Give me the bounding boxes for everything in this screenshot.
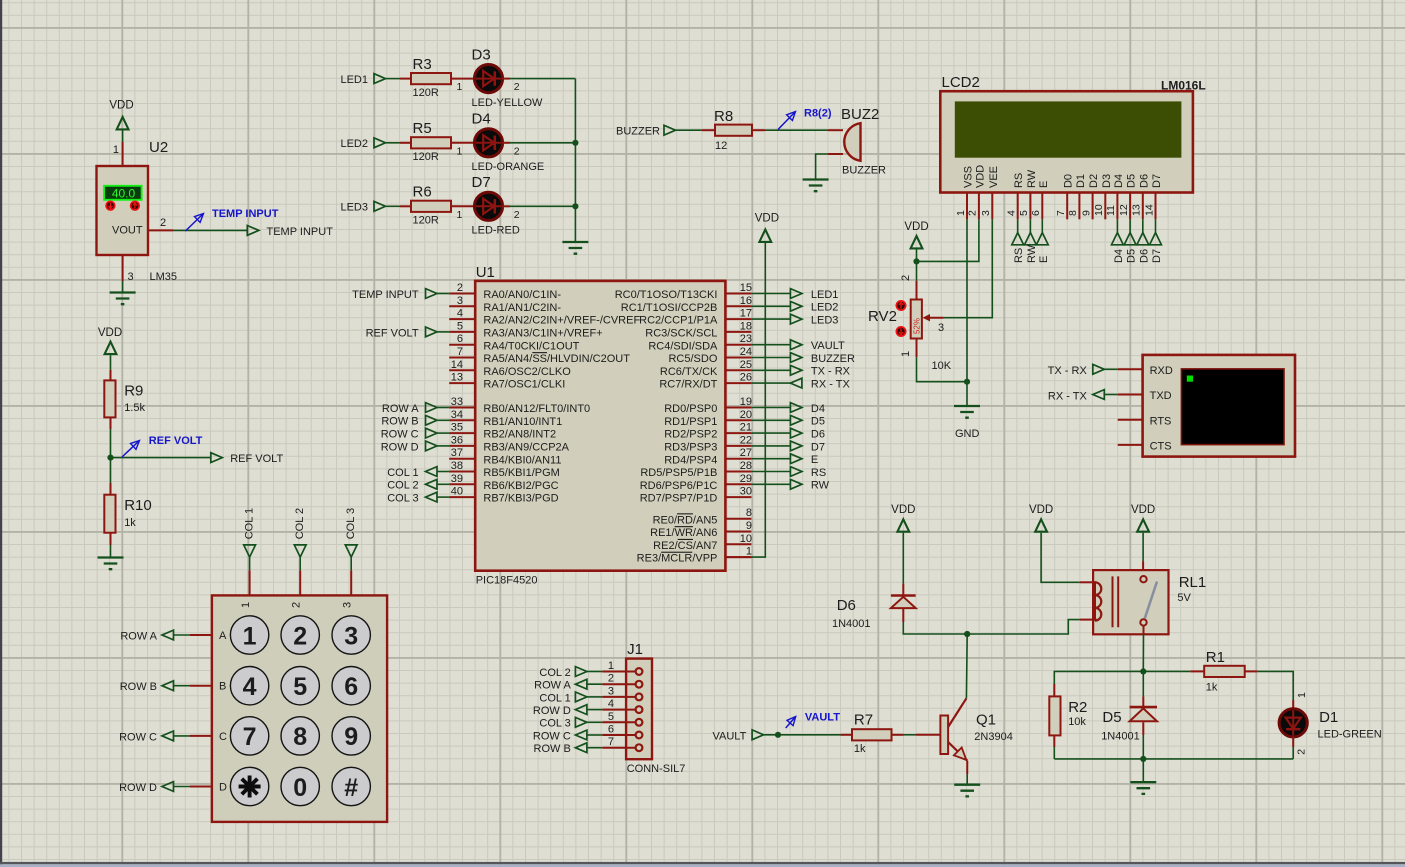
svg-text:CTS: CTS: [1150, 441, 1172, 453]
svg-text:RC2/CCP1/P1A: RC2/CCP1/P1A: [639, 315, 718, 327]
svg-text:13: 13: [451, 372, 463, 384]
svg-text:35: 35: [451, 422, 463, 434]
svg-text:4: 4: [243, 673, 257, 701]
svg-text:TEMP INPUT: TEMP INPUT: [267, 226, 334, 238]
svg-text:RA6/OSC2/CLKO: RA6/OSC2/CLKO: [483, 366, 571, 378]
svg-text:D7: D7: [811, 441, 825, 453]
svg-text:J1: J1: [627, 641, 643, 658]
svg-text:RW: RW: [1026, 244, 1038, 263]
svg-text:REF VOLT: REF VOLT: [366, 327, 419, 339]
svg-text:39: 39: [451, 473, 463, 485]
svg-text:1.5k: 1.5k: [124, 402, 145, 414]
svg-text:2: 2: [293, 622, 307, 650]
svg-text:COL 3: COL 3: [387, 493, 418, 505]
svg-text:RE1/WR/AN6: RE1/WR/AN6: [650, 527, 717, 539]
svg-text:0: 0: [293, 774, 307, 802]
svg-text:BUZ2: BUZ2: [841, 106, 879, 123]
svg-text:LM35: LM35: [150, 271, 178, 283]
svg-text:VAULT: VAULT: [811, 340, 845, 352]
svg-text:R9: R9: [124, 383, 143, 400]
svg-text:2: 2: [1296, 749, 1308, 755]
svg-text:VEE: VEE: [988, 166, 1000, 188]
svg-text:RD7/PSP7/P1D: RD7/PSP7/P1D: [640, 493, 718, 505]
svg-text:40: 40: [451, 486, 463, 498]
svg-text:VDD: VDD: [1029, 504, 1053, 516]
svg-text:E: E: [1038, 181, 1050, 188]
svg-text:D1: D1: [1319, 709, 1338, 726]
svg-text:R7: R7: [854, 712, 873, 729]
svg-text:D5: D5: [811, 416, 825, 428]
svg-text:RX - TX: RX - TX: [811, 379, 851, 391]
svg-text:RA0/AN0/C1IN-: RA0/AN0/C1IN-: [483, 289, 561, 301]
svg-text:VDD: VDD: [1131, 504, 1155, 516]
svg-text:TX - RX: TX - RX: [1048, 365, 1088, 377]
svg-text:9: 9: [344, 723, 358, 751]
svg-text:RC5/SDO: RC5/SDO: [668, 353, 717, 365]
svg-text:COL 1: COL 1: [539, 692, 570, 704]
svg-text:34: 34: [451, 409, 463, 421]
svg-text:RD6/PSP6/P1C: RD6/PSP6/P1C: [640, 480, 718, 492]
svg-text:ROW B: ROW B: [534, 743, 571, 755]
svg-text:37: 37: [451, 447, 463, 459]
svg-text:B: B: [219, 681, 226, 693]
svg-text:120R: 120R: [413, 215, 439, 227]
svg-text:RD1/PSP1: RD1/PSP1: [664, 416, 717, 428]
svg-text:6: 6: [1030, 210, 1042, 216]
svg-text:LED-GREEN: LED-GREEN: [1318, 729, 1382, 741]
svg-text:D6: D6: [1138, 174, 1150, 188]
svg-text:ROW B: ROW B: [120, 681, 157, 693]
svg-text:6: 6: [457, 333, 463, 345]
svg-text:5: 5: [293, 673, 307, 701]
svg-text:U1: U1: [476, 264, 495, 281]
svg-text:14: 14: [451, 359, 463, 371]
svg-text:1: 1: [608, 660, 614, 672]
svg-text:14: 14: [1143, 204, 1155, 216]
svg-text:LED3: LED3: [340, 202, 368, 214]
svg-text:LED1: LED1: [811, 289, 839, 301]
svg-text:RB6/KBI2/PGC: RB6/KBI2/PGC: [483, 480, 558, 492]
svg-text:RB3/AN9/CCP2A: RB3/AN9/CCP2A: [483, 442, 569, 454]
svg-text:RC1/T1OSI/CCP2B: RC1/T1OSI/CCP2B: [621, 302, 718, 314]
svg-text:RC3/SCK/SCL: RC3/SCK/SCL: [645, 328, 717, 340]
svg-text:30: 30: [740, 486, 752, 498]
svg-text:18: 18: [740, 320, 752, 332]
svg-text:1: 1: [243, 622, 257, 650]
svg-text:RL1: RL1: [1179, 574, 1207, 591]
svg-text:D1: D1: [1075, 174, 1087, 188]
svg-text:ROW C: ROW C: [381, 429, 419, 441]
svg-text:RD3/PSP3: RD3/PSP3: [664, 442, 717, 454]
svg-text:RC0/T1OSO/T13CKI: RC0/T1OSO/T13CKI: [615, 289, 718, 301]
svg-text:RB2/AN8/INT2: RB2/AN8/INT2: [483, 429, 556, 441]
svg-text:1: 1: [900, 351, 912, 357]
svg-text:16: 16: [740, 295, 752, 307]
svg-text:VDD: VDD: [891, 504, 915, 516]
svg-text:12: 12: [715, 140, 727, 152]
svg-text:8: 8: [293, 723, 307, 751]
svg-text:RA5/AN4/SS/HLVDIN/C2OUT: RA5/AN4/SS/HLVDIN/C2OUT: [483, 353, 630, 365]
svg-text:10: 10: [1093, 204, 1105, 216]
svg-text:TEMP INPUT: TEMP INPUT: [352, 289, 419, 301]
svg-text:RB7/KBI3/PGD: RB7/KBI3/PGD: [483, 493, 558, 505]
svg-text:D4: D4: [1113, 249, 1125, 263]
svg-text:LED2: LED2: [340, 138, 368, 150]
svg-text:RS: RS: [811, 467, 826, 479]
svg-text:R1: R1: [1206, 649, 1225, 666]
svg-text:2: 2: [967, 210, 979, 216]
svg-text:11: 11: [1105, 205, 1117, 216]
svg-text:2N3904: 2N3904: [974, 731, 1013, 743]
svg-text:20: 20: [740, 409, 752, 421]
svg-text:RD4/PSP4: RD4/PSP4: [664, 454, 717, 466]
svg-text:6: 6: [608, 724, 614, 736]
svg-text:5: 5: [457, 320, 463, 332]
svg-text:1k: 1k: [854, 743, 866, 755]
svg-text:4: 4: [1006, 210, 1018, 216]
svg-text:RW: RW: [811, 480, 830, 492]
svg-text:5: 5: [608, 711, 614, 723]
svg-text:VAULT: VAULT: [805, 712, 840, 724]
svg-text:3: 3: [344, 622, 358, 650]
svg-text:3: 3: [342, 602, 354, 608]
svg-text:ROW C: ROW C: [533, 730, 571, 742]
svg-text:R10: R10: [124, 497, 152, 514]
svg-text:9: 9: [746, 520, 752, 532]
svg-text:ROW A: ROW A: [534, 680, 571, 692]
svg-text:RA2/AN2/C2IN+/VREF-/CVREF: RA2/AN2/C2IN+/VREF-/CVREF: [483, 315, 640, 327]
svg-text:COL 2: COL 2: [294, 508, 306, 539]
svg-text:19: 19: [740, 396, 752, 408]
svg-text:1k: 1k: [124, 517, 136, 529]
svg-text:R8: R8: [714, 108, 733, 125]
svg-text:RTS: RTS: [1150, 415, 1172, 427]
svg-text:VOUT: VOUT: [112, 225, 143, 237]
svg-text:VDD: VDD: [974, 165, 986, 188]
svg-text:RA7/OSC1/CLKI: RA7/OSC1/CLKI: [483, 379, 565, 391]
svg-text:28: 28: [740, 460, 752, 472]
svg-text:52%: 52%: [913, 318, 922, 334]
svg-text:2: 2: [514, 209, 520, 221]
svg-text:LED-RED: LED-RED: [472, 225, 520, 237]
svg-text:R6: R6: [413, 184, 432, 201]
svg-text:2: 2: [514, 145, 520, 157]
svg-text:1: 1: [456, 81, 462, 93]
svg-text:#: #: [344, 774, 358, 802]
svg-text:40.0: 40.0: [112, 187, 136, 201]
svg-text:D4: D4: [1113, 174, 1125, 188]
svg-text:8: 8: [1067, 210, 1079, 216]
svg-text:RE2/CS/AN7: RE2/CS/AN7: [653, 540, 717, 552]
svg-text:LED1: LED1: [340, 74, 368, 86]
svg-text:LED3: LED3: [811, 315, 839, 327]
svg-text:GND: GND: [955, 428, 980, 440]
svg-text:RB1/AN10/INT1: RB1/AN10/INT1: [483, 416, 562, 428]
svg-text:BUZZER: BUZZER: [811, 353, 855, 365]
svg-text:RXD: RXD: [1150, 365, 1173, 377]
svg-text:RV2: RV2: [868, 308, 897, 325]
svg-text:E: E: [1038, 256, 1050, 263]
svg-text:RE0/RD/AN5: RE0/RD/AN5: [653, 514, 718, 526]
svg-text:COL 3: COL 3: [539, 718, 570, 730]
svg-text:VDD: VDD: [904, 221, 928, 233]
svg-text:ROW A: ROW A: [120, 631, 157, 643]
svg-text:D6: D6: [1138, 249, 1150, 263]
svg-text:D7: D7: [472, 174, 491, 191]
svg-text:ROW D: ROW D: [381, 441, 419, 453]
svg-text:RC6/TX/CK: RC6/TX/CK: [660, 366, 718, 378]
svg-text:38: 38: [451, 460, 463, 472]
svg-text:24: 24: [740, 346, 752, 358]
svg-text:10k: 10k: [1068, 716, 1086, 728]
svg-text:REF VOLT: REF VOLT: [149, 435, 203, 447]
svg-text:15: 15: [740, 282, 752, 294]
svg-text:ROW C: ROW C: [119, 731, 157, 743]
svg-text:U2: U2: [149, 139, 168, 156]
svg-text:D3: D3: [1101, 174, 1113, 188]
svg-text:33: 33: [451, 396, 463, 408]
svg-text:D2: D2: [1088, 174, 1100, 188]
svg-text:22: 22: [740, 434, 752, 446]
svg-text:LED-ORANGE: LED-ORANGE: [472, 161, 545, 173]
svg-text:R5: R5: [413, 120, 432, 137]
svg-text:1k: 1k: [1206, 682, 1218, 694]
svg-text:BUZZER: BUZZER: [842, 165, 886, 177]
svg-text:25: 25: [740, 359, 752, 371]
svg-text:D5: D5: [1102, 709, 1121, 726]
svg-text:7: 7: [608, 736, 614, 748]
svg-text:RS: RS: [1013, 173, 1025, 188]
svg-text:D6: D6: [837, 597, 856, 614]
svg-text:COL 3: COL 3: [345, 508, 357, 539]
svg-text:17: 17: [740, 308, 752, 320]
svg-text:TXD: TXD: [1150, 390, 1172, 402]
svg-text:D5: D5: [1126, 249, 1138, 263]
svg-text:E: E: [811, 454, 818, 466]
svg-text:REF VOLT: REF VOLT: [230, 453, 283, 465]
svg-text:29: 29: [740, 473, 752, 485]
svg-text:COL 2: COL 2: [387, 480, 418, 492]
svg-text:R2: R2: [1068, 699, 1087, 716]
svg-text:D5: D5: [1126, 174, 1138, 188]
svg-text:RC7/RX/DT: RC7/RX/DT: [659, 379, 717, 391]
svg-text:1N4001: 1N4001: [832, 618, 871, 630]
svg-text:PIC18F4520: PIC18F4520: [476, 575, 538, 587]
svg-text:10K: 10K: [932, 360, 952, 372]
svg-text:RE3/MCLR/VPP: RE3/MCLR/VPP: [637, 553, 718, 565]
svg-text:8: 8: [746, 507, 752, 519]
svg-text:ROW B: ROW B: [381, 416, 418, 428]
svg-text:1: 1: [456, 145, 462, 157]
svg-text:3: 3: [980, 210, 992, 216]
svg-text:1: 1: [113, 144, 119, 156]
svg-text:120R: 120R: [413, 151, 439, 163]
svg-text:1: 1: [240, 602, 252, 608]
svg-text:RW: RW: [1026, 169, 1038, 188]
svg-text:RA4/T0CKI/C1OUT: RA4/T0CKI/C1OUT: [483, 340, 579, 352]
svg-text:A: A: [219, 630, 227, 642]
svg-text:RB0/AN12/FLT0/INT0: RB0/AN12/FLT0/INT0: [483, 403, 590, 415]
svg-text:R3: R3: [413, 56, 432, 73]
svg-text:CONN-SIL7: CONN-SIL7: [627, 763, 686, 775]
svg-text:D3: D3: [472, 47, 491, 64]
svg-text:RA3/AN3/C1IN+/VREF+: RA3/AN3/C1IN+/VREF+: [483, 328, 602, 340]
svg-text:2: 2: [160, 217, 166, 229]
svg-text:RS: RS: [1013, 248, 1025, 263]
svg-text:3: 3: [608, 685, 614, 697]
svg-text:12: 12: [1118, 204, 1130, 216]
svg-text:BUZZER: BUZZER: [616, 126, 660, 138]
svg-text:21: 21: [740, 422, 752, 434]
svg-text:R8(2): R8(2): [804, 108, 832, 120]
svg-text:LED-YELLOW: LED-YELLOW: [472, 97, 544, 109]
svg-text:D7: D7: [1151, 249, 1163, 263]
svg-text:1: 1: [746, 546, 752, 558]
svg-text:4: 4: [608, 698, 614, 710]
svg-text:TX - RX: TX - RX: [811, 366, 851, 378]
svg-text:D4: D4: [811, 403, 825, 415]
svg-text:ROW D: ROW D: [119, 782, 157, 794]
svg-text:RD2/PSP2: RD2/PSP2: [664, 429, 717, 441]
svg-text:10: 10: [740, 533, 752, 545]
svg-text:RA1/AN1/C2IN-: RA1/AN1/C2IN-: [483, 302, 561, 314]
svg-text:2: 2: [900, 275, 912, 281]
svg-text:ROW A: ROW A: [382, 403, 419, 415]
svg-text:COL 1: COL 1: [387, 467, 418, 479]
svg-text:2: 2: [291, 602, 303, 608]
svg-text:RB5/KBI1/PGM: RB5/KBI1/PGM: [483, 467, 559, 479]
svg-text:1: 1: [456, 209, 462, 221]
svg-text:RD5/PSP5/P1B: RD5/PSP5/P1B: [640, 467, 717, 479]
svg-text:D7: D7: [1151, 174, 1163, 188]
svg-text:1: 1: [955, 210, 967, 216]
svg-text:LCD2: LCD2: [942, 74, 980, 91]
svg-text:120R: 120R: [413, 87, 439, 99]
svg-text:36: 36: [451, 434, 463, 446]
svg-text:7: 7: [457, 346, 463, 358]
svg-text:VDD: VDD: [98, 327, 122, 339]
svg-text:D0: D0: [1063, 174, 1075, 188]
svg-text:27: 27: [740, 447, 752, 459]
svg-text:3: 3: [938, 322, 944, 334]
svg-text:7: 7: [243, 723, 257, 751]
svg-text:RC4/SDI/SDA: RC4/SDI/SDA: [648, 340, 718, 352]
svg-text:RX - TX: RX - TX: [1048, 390, 1088, 402]
svg-text:3: 3: [457, 295, 463, 307]
svg-text:COL 1: COL 1: [244, 508, 256, 539]
svg-text:VDD: VDD: [755, 213, 779, 225]
svg-text:2: 2: [514, 81, 520, 93]
svg-text:2: 2: [608, 673, 614, 685]
svg-text:VSS: VSS: [963, 166, 975, 188]
svg-text:RB4/KBI0/AN11: RB4/KBI0/AN11: [483, 454, 561, 466]
svg-text:D: D: [219, 782, 227, 794]
svg-text:13: 13: [1131, 204, 1143, 216]
svg-text:26: 26: [740, 372, 752, 384]
svg-text:VAULT: VAULT: [712, 730, 746, 742]
svg-text:TEMP INPUT: TEMP INPUT: [212, 208, 279, 220]
svg-text:D6: D6: [811, 429, 825, 441]
svg-text:3: 3: [128, 271, 134, 283]
svg-text:COL 2: COL 2: [539, 667, 570, 679]
svg-text:9: 9: [1080, 210, 1092, 216]
svg-text:5V: 5V: [1177, 592, 1191, 604]
svg-text:LED2: LED2: [811, 302, 839, 314]
svg-text:1N4001: 1N4001: [1101, 731, 1140, 743]
svg-text:ROW D: ROW D: [533, 705, 571, 717]
svg-text:VDD: VDD: [109, 100, 133, 112]
svg-text:7: 7: [1055, 210, 1067, 216]
svg-text:C: C: [219, 731, 227, 743]
svg-text:23: 23: [740, 333, 752, 345]
svg-text:D4: D4: [472, 111, 491, 128]
svg-text:5: 5: [1018, 210, 1030, 216]
svg-text:RD0/PSP0: RD0/PSP0: [664, 403, 717, 415]
svg-text:Q1: Q1: [976, 712, 996, 729]
svg-text:2: 2: [457, 282, 463, 294]
svg-text:4: 4: [457, 308, 463, 320]
svg-text:6: 6: [344, 673, 358, 701]
svg-text:1: 1: [1296, 692, 1308, 698]
